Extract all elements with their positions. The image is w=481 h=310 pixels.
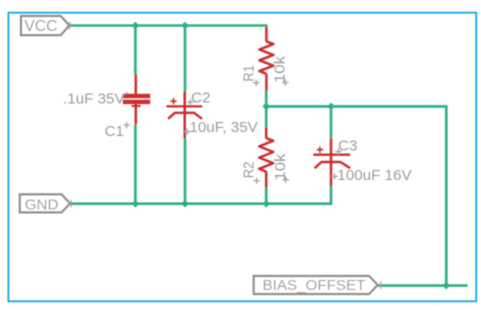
svg-text:10uF, 35V: 10uF, 35V (189, 119, 258, 136)
wire C2 branch lower (184, 138, 187, 204)
pin cross at VCC tip (69, 22, 71, 30)
text-origin cross for C3 (335, 148, 341, 154)
svg-text:C2: C2 (191, 90, 210, 107)
svg-text:R1: R1 (239, 65, 256, 82)
junction VCC-C1 (132, 22, 140, 30)
junction midrail-C3 (327, 103, 335, 111)
pin cross at BIAS_OFFSET tip (380, 281, 382, 289)
wire VCC rail (69, 24, 268, 27)
wire C1 branch lower (134, 124, 137, 204)
pin cross at GND tip (70, 200, 72, 208)
wire mid rail and right vertical (266, 106, 446, 285)
junction GND-R2 (262, 200, 270, 208)
text-origin cross for .1uF 35V (124, 92, 130, 98)
text-origin cross for 10uF,35V (184, 129, 190, 135)
capacitor C1 (123, 75, 150, 125)
svg-text:BIAS_OFFSET: BIAS_OFFSET (263, 277, 366, 294)
wire C3 branch upper (330, 106, 333, 139)
junction R1-R2 node (262, 103, 270, 111)
wire R2 bottom segment (265, 171, 268, 203)
text-origin cross for C2 (187, 99, 193, 105)
svg-text:VCC: VCC (24, 18, 57, 35)
resistor R1 (259, 27, 273, 91)
text-origin cross for 100uF16V (331, 173, 337, 179)
wire C1 branch upper (134, 26, 137, 76)
net flag BIAS_OFFSET (254, 276, 378, 294)
text-origin cross for C1 (123, 122, 129, 128)
svg-text:R2: R2 (241, 161, 258, 178)
svg-text:C1: C1 (105, 123, 124, 140)
wire BIAS_OFFSET run (378, 284, 468, 287)
resistor R2 (259, 128, 273, 188)
text-origin cross for R1 10k (282, 79, 288, 85)
net flag VCC (21, 16, 69, 35)
text-origin cross for R1 (253, 80, 259, 86)
text-origin cross for R2 (254, 178, 260, 184)
wire GND rail with C3 spur (70, 185, 331, 204)
junction VCC-C2 (181, 22, 189, 30)
svg-text:10k: 10k (272, 56, 288, 83)
svg-text:.1uF 35V: .1uF 35V (63, 90, 126, 107)
junction GND-C2 (181, 200, 189, 208)
capacitor C3 (polarized) (313, 139, 350, 186)
junction BIAS_OFFSET node (443, 282, 451, 290)
svg-text:100uF 16V: 100uF 16V (337, 167, 412, 184)
junction GND-C1 (132, 200, 140, 208)
text-origin cross for R2 10k (283, 177, 289, 183)
capacitor C2 (polarized) (167, 92, 203, 139)
wire C2 branch upper (184, 26, 187, 93)
wire R1-R2 mid segment (265, 90, 268, 128)
svg-text:GND: GND (25, 196, 59, 213)
net flag GND (20, 194, 70, 213)
